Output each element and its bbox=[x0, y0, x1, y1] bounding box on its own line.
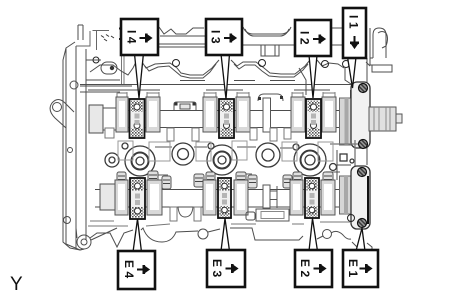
bottom cam end journal bbox=[351, 166, 370, 229]
span1 legs below bbox=[167, 128, 174, 141]
right side details bbox=[299, 62, 370, 180]
bolt circles above cam bbox=[173, 60, 180, 67]
box labels (rotated) bbox=[122, 15, 361, 282]
left oval boss bbox=[101, 62, 117, 74]
bottom camshaft bbox=[95, 176, 352, 221]
span2 white vbar bbox=[263, 98, 271, 132]
svg-text:I4: I4 bbox=[125, 30, 139, 47]
top edge U dip between box2 and box3 bbox=[243, 27, 291, 34]
engine head outline bbox=[50, 25, 392, 250]
left flange bolts bbox=[70, 81, 78, 89]
lobe tabs above bbox=[117, 93, 335, 97]
right horizontal bar bbox=[372, 65, 392, 72]
left end rect bbox=[89, 105, 103, 133]
striped cylinder bbox=[369, 107, 396, 131]
top cap 3 bbox=[306, 99, 321, 138]
left hook pipe bbox=[50, 100, 74, 129]
top cam end journal bbox=[351, 82, 402, 149]
right body edge bbox=[367, 28, 370, 165]
lobes bbox=[115, 180, 335, 215]
top cap 2 bbox=[219, 99, 234, 138]
left flange outer bbox=[63, 42, 84, 250]
svg-text:I2: I2 bbox=[298, 31, 312, 48]
svg-text:E1: E1 bbox=[346, 259, 360, 281]
journal pedestal before end journal (top cam) bbox=[340, 98, 353, 145]
box arrows bbox=[137, 34, 373, 275]
svg-text:Y: Y bbox=[10, 274, 23, 295]
right small cylinder shape bbox=[373, 28, 386, 58]
ledge lines upper-left bbox=[80, 60, 132, 92]
svg-text:I1: I1 bbox=[347, 15, 361, 32]
span1 bracket on shaft bbox=[174, 102, 196, 110]
lower inner edges bbox=[88, 221, 170, 226]
bottom cap 2 bbox=[218, 178, 231, 218]
top-left fork bbox=[78, 25, 83, 40]
bracket under U dip bbox=[261, 45, 279, 56]
svg-text:E2: E2 bbox=[298, 259, 312, 281]
top-left steps bbox=[76, 31, 109, 51]
top cap 1 bbox=[130, 99, 145, 138]
bottom cap 3 bbox=[305, 178, 319, 218]
lobes group1 bbox=[116, 97, 336, 132]
valve springs row bbox=[117, 171, 333, 189]
webs above circles bbox=[118, 141, 333, 161]
span2: white vbar + rungs bbox=[263, 185, 270, 208]
wavy contour above cam bbox=[142, 60, 219, 75]
top edge zigzag between box1 and box2 bbox=[159, 27, 204, 34]
area right of box3 bbox=[331, 28, 343, 45]
journal pedestal before end journal (bottom cam) bbox=[340, 176, 352, 214]
span3 legs below bbox=[105, 128, 114, 138]
span2 legs below bbox=[250, 128, 257, 140]
span2 tray below bbox=[256, 209, 289, 221]
long flange line bbox=[80, 84, 365, 86]
top camshaft bbox=[89, 90, 356, 145]
span1: legs + U cup below shaft bbox=[170, 207, 177, 221]
svg-text:I3: I3 bbox=[209, 30, 223, 47]
bottom cap 1 bbox=[130, 178, 145, 219]
svg-text:E4: E4 bbox=[122, 260, 136, 282]
rounded detail below bottom cam bbox=[246, 212, 255, 220]
bottom area outline bbox=[66, 212, 372, 251]
vertical ticks at lobe tops bbox=[117, 92, 335, 97]
svg-text:E3: E3 bbox=[210, 259, 224, 281]
shaft lines bbox=[89, 111, 351, 128]
middle circles row bbox=[105, 140, 358, 185]
connecting lines bbox=[155, 147, 294, 148]
